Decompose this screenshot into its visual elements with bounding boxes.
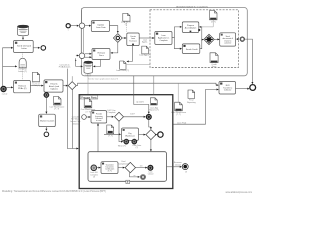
- wire D12 up to long line: [177, 83, 179, 102]
- document stack D9: [150, 98, 157, 105]
- task T12 Market Custom: [39, 114, 56, 126]
- wire D5 to T8: [199, 20, 213, 27]
- task T14 Pay Warehouse: [122, 128, 139, 140]
- svg-text:to cust.: to cust.: [96, 119, 102, 122]
- wire GW5 to DE2: [136, 167, 148, 169]
- svg-text:Closed: Closed: [175, 164, 181, 166]
- gateway GW0: [68, 82, 76, 90]
- intermediate event IE1: [240, 37, 244, 41]
- start event SE0 (dark ring): [66, 24, 70, 28]
- wire T15 to GW5: [118, 167, 125, 169]
- wire GW0 long flow to T11: [76, 83, 218, 85]
- svg-text:100: 100: [140, 166, 143, 168]
- task T3 Email & Attach: [44, 80, 63, 92]
- start event S1: [82, 115, 87, 120]
- document D4: [142, 46, 149, 54]
- end event E1: [41, 46, 46, 51]
- intermediate event E6: [44, 132, 49, 137]
- svg-text:Modelling: Transactional and F: Modelling: Transactional and Focus Diffe…: [2, 190, 106, 193]
- wire Loan Paid from pool to T11: [173, 90, 218, 125]
- terminate event TE: [182, 164, 188, 170]
- message M1: [19, 58, 26, 68]
- wire IE1 to E3: [245, 39, 253, 84]
- gateway GW4: [146, 130, 156, 140]
- wire T2 to T3: [30, 85, 43, 87]
- document D11 Final Reporting: [188, 90, 195, 98]
- wire pool exit to TE: [167, 166, 182, 168]
- wire T12 to E6: [45, 127, 47, 131]
- datastore C1 Loan Data: [18, 25, 29, 36]
- wire T6 down to C2: [93, 60, 100, 67]
- gateway GW5: [125, 162, 135, 172]
- svg-text:Accreditation: Accreditation: [185, 27, 197, 30]
- svg-text:(?, ?): (?, ?): [108, 171, 112, 173]
- svg-text:s: s: [68, 29, 69, 31]
- wire T8 into GW2: [199, 27, 202, 39]
- document D8: [84, 99, 92, 108]
- wire from container down to DE1: [134, 76, 149, 114]
- wire C1 to T1: [22, 36, 24, 40]
- svg-text:Applic.: Applic.: [142, 41, 148, 44]
- wire T1 to E1: [33, 47, 40, 49]
- wire into datastore C2: [76, 58, 83, 66]
- svg-text:Collector: Collector: [224, 89, 232, 92]
- intermediate event DE1 (dark): [146, 114, 151, 119]
- wire into T14 left: [104, 133, 121, 135]
- svg-text:Complete: Complete: [107, 111, 115, 114]
- svg-text:Loan Data: Loan Data: [96, 26, 106, 29]
- wire stub down to D9: [153, 76, 155, 95]
- wire GW0 top stub: [71, 76, 73, 81]
- wire GW3 down to T14: [119, 121, 123, 141]
- wire from SC up into T13: [97, 124, 99, 152]
- svg-text:customer: customer: [224, 42, 232, 45]
- svg-text:DB (?): DB (?): [85, 75, 91, 77]
- svg-text:Warehouse: Warehouse: [125, 134, 135, 137]
- wire T9 into GW2: [200, 40, 204, 49]
- event G2: [79, 53, 85, 59]
- pool: top main container (rounded): [81, 8, 247, 76]
- wire long flow T3 to T11: [63, 85, 68, 87]
- svg-text:(?): (?): [136, 147, 139, 149]
- svg-text:e-mail: e-mail: [2, 94, 8, 96]
- wire T13 to GW3: [107, 116, 114, 118]
- wire G2 to T6 (two): [85, 53, 92, 55]
- task T6 Release Docs: [92, 49, 110, 60]
- wire GW1 down to T6 right: [111, 42, 118, 53]
- gateway GW2 (complex, dark X): [204, 34, 214, 44]
- wire GW5 down to E5: [130, 173, 140, 177]
- svg-text:(?, ?): (?, ?): [86, 111, 91, 113]
- subprocess plus marker: [126, 180, 130, 183]
- task T10 Send documents review: [220, 33, 236, 46]
- svg-text:(?, ?): (?, ?): [54, 109, 59, 111]
- wire assoc T1-M1: [21, 52, 23, 58]
- boundary marker on T8: [198, 29, 200, 31]
- wire T4 to GW1: [110, 26, 118, 33]
- label box Prepare Party: [80, 95, 98, 99]
- wire EV to T15: [97, 167, 101, 169]
- datastore C2: [84, 61, 93, 73]
- svg-text:Sends loan application data (?: Sends loan application data (?): [88, 77, 118, 80]
- task T8 Prepare Accreditation: [182, 22, 199, 33]
- wire G1 to G2 (two rails): [80, 29, 82, 53]
- wire rail2 down into pool: [67, 69, 78, 149]
- task T13 Provide financing: [91, 111, 107, 123]
- wire DE1 down to GW4: [149, 120, 151, 129]
- svg-text:POA Actuals: POA Actuals: [59, 66, 71, 69]
- svg-text:Loan Docs (?): Loan Docs (?): [116, 70, 129, 72]
- wire D3 to group: [127, 64, 151, 66]
- svg-text:Whse (?): Whse (?): [118, 145, 126, 147]
- svg-text:www.allaboutprocess.com: www.allaboutprocess.com: [225, 191, 252, 194]
- wire GW4 to E4: [156, 134, 157, 136]
- svg-text:(?, ?): (?, ?): [108, 135, 113, 137]
- service gears under T14: [124, 139, 129, 144]
- wire S1 to T13: [86, 116, 90, 118]
- wire D2 assoc: [125, 21, 127, 32]
- svg-text:Market Custom: Market Custom: [40, 119, 54, 122]
- svg-text:Sends Credit: Sends Credit: [186, 48, 198, 51]
- wire SE0 to G1: [70, 25, 78, 27]
- subprocess container SC: [88, 152, 167, 182]
- wire T11 to E3: [236, 88, 250, 90]
- task T7 Loan Application is Complete: [155, 32, 172, 45]
- svg-text:Reporting: Reporting: [187, 101, 196, 104]
- wire stub into G2: [76, 55, 79, 57]
- document D1: [32, 72, 39, 81]
- task T9 Sends Credit: [182, 44, 200, 54]
- svg-text:Completion?: Completion?: [118, 162, 128, 165]
- wire E2 to T2: [6, 86, 12, 88]
- svg-text:Update): Update): [50, 87, 57, 90]
- svg-text:Loan Paid: Loan Paid: [177, 122, 187, 124]
- svg-text:(?): (?): [93, 176, 96, 178]
- task T1 Send Demand Letter: [14, 41, 34, 53]
- svg-text:PDAs (2): PDAs (2): [18, 87, 27, 90]
- task T15 Guarantee Documentation: [101, 162, 118, 174]
- svg-text:Letter (?): Letter (?): [18, 70, 27, 73]
- task T11 BLR Transfer to Collector: [219, 82, 236, 95]
- svg-text:Reports (?): Reports (?): [149, 109, 159, 112]
- svg-text:BORROWER'S CLERKS: BORROWER'S CLERKS: [176, 5, 208, 9]
- document D6: [210, 53, 218, 63]
- wire rail to message M1: [3, 65, 17, 67]
- task T5 Create Loan Transaction: [127, 33, 139, 46]
- end event E4: [158, 132, 163, 137]
- svg-text:Loan App (?): Loan App (?): [139, 53, 151, 56]
- end event E3: [250, 85, 256, 91]
- wire T14 to GW4: [139, 134, 146, 136]
- svg-text:Letter: Letter: [21, 47, 27, 50]
- wire GW0 bottom rail into pool: [71, 90, 73, 149]
- group: BORROWER'S CLERKS dashed container: [150, 10, 239, 68]
- svg-text:(?): (?): [185, 172, 188, 174]
- wire T5 down to D3: [127, 46, 133, 62]
- document D5: [210, 11, 218, 20]
- wire GW1 to T5: [122, 37, 126, 39]
- svg-text:ditions: ditions: [73, 122, 79, 125]
- wire gear to T12: [45, 98, 47, 114]
- svg-text:Docs: Docs: [212, 66, 217, 68]
- svg-text:Docs: Docs: [99, 55, 104, 57]
- wire GW3 to DE1: [124, 116, 146, 118]
- document D7 Can Warehouse: [54, 97, 62, 106]
- wire GW4 down to subprocess: [150, 140, 152, 152]
- gateway GW3: [115, 112, 124, 121]
- wire T10 to IE1: [236, 38, 239, 40]
- service marker (dark gear) under T3: [44, 92, 49, 97]
- wire assoc M1-T2: [21, 67, 23, 80]
- document D2: [123, 13, 130, 21]
- wire G1 to T4: [85, 25, 91, 27]
- task T4 Update Loan Data: [91, 21, 109, 32]
- wire T7 split to T8/T9: [172, 27, 182, 38]
- svg-text:Transact.: Transact.: [129, 40, 137, 43]
- pool: Prepare Party: [79, 95, 173, 189]
- wire from container top to G1: [81, 8, 83, 23]
- task T2 Release PDAs: [14, 81, 31, 93]
- svg-text:(?, ?): (?, ?): [176, 114, 181, 116]
- message event E2 (dark): [1, 86, 7, 92]
- event G1: [79, 23, 84, 28]
- svg-text:Closed: Closed: [148, 174, 154, 176]
- event EV (multi): [91, 165, 97, 171]
- document D3: [120, 61, 126, 69]
- svg-text:Complete: Complete: [160, 39, 168, 42]
- wire left rail into T1: [3, 48, 13, 86]
- end event DE2 (dark): [148, 165, 153, 170]
- document D12 Loan Warehouse: [175, 102, 183, 111]
- wire GW2 to T10: [214, 38, 219, 40]
- svg-text:PDA (?): PDA (?): [33, 84, 41, 87]
- svg-text:no: no: [133, 175, 135, 177]
- document D10: [107, 125, 114, 134]
- wire T5 to T7: [139, 37, 154, 39]
- gateway GW1 (event-based): [113, 34, 122, 43]
- intermediate event E5: [141, 175, 146, 180]
- svg-text:Up 100%: Up 100%: [136, 102, 144, 104]
- wire C2 down to D8: [87, 74, 89, 99]
